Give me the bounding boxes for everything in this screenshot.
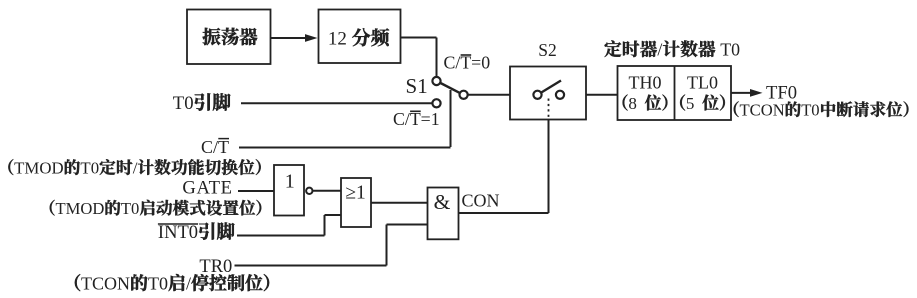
svg-text:T0: T0 — [148, 274, 168, 294]
svg-text:TR0: TR0 — [199, 257, 232, 277]
svg-text:TCON: TCON — [740, 101, 785, 120]
svg-text:S2: S2 — [538, 40, 557, 60]
svg-text:&: & — [434, 190, 451, 214]
svg-text:GATE: GATE — [182, 178, 232, 199]
svg-text:TCON: TCON — [81, 274, 130, 294]
svg-text:C/T: C/T — [201, 137, 229, 157]
svg-text:≥1: ≥1 — [345, 183, 366, 204]
svg-text:TH0: TH0 — [629, 73, 662, 93]
svg-text:1: 1 — [285, 170, 295, 192]
svg-text:CON: CON — [462, 191, 500, 211]
svg-text:INT0: INT0 — [158, 223, 198, 243]
svg-text:8: 8 — [628, 94, 637, 113]
svg-text:/: / — [657, 40, 662, 60]
svg-text:T0: T0 — [801, 101, 819, 120]
svg-text:5: 5 — [686, 94, 695, 113]
svg-text:/: / — [133, 159, 138, 178]
svg-text:/: / — [186, 274, 191, 294]
svg-text:S1: S1 — [406, 74, 428, 98]
svg-text:12: 12 — [328, 29, 347, 50]
svg-text:TMOD: TMOD — [14, 159, 64, 178]
svg-text:T0: T0 — [121, 199, 139, 218]
svg-text:T0: T0 — [173, 93, 194, 114]
svg-text:TL0: TL0 — [687, 73, 718, 93]
svg-text:T0: T0 — [720, 40, 740, 60]
svg-text:T0: T0 — [80, 159, 99, 178]
svg-text:TMOD: TMOD — [56, 199, 105, 218]
